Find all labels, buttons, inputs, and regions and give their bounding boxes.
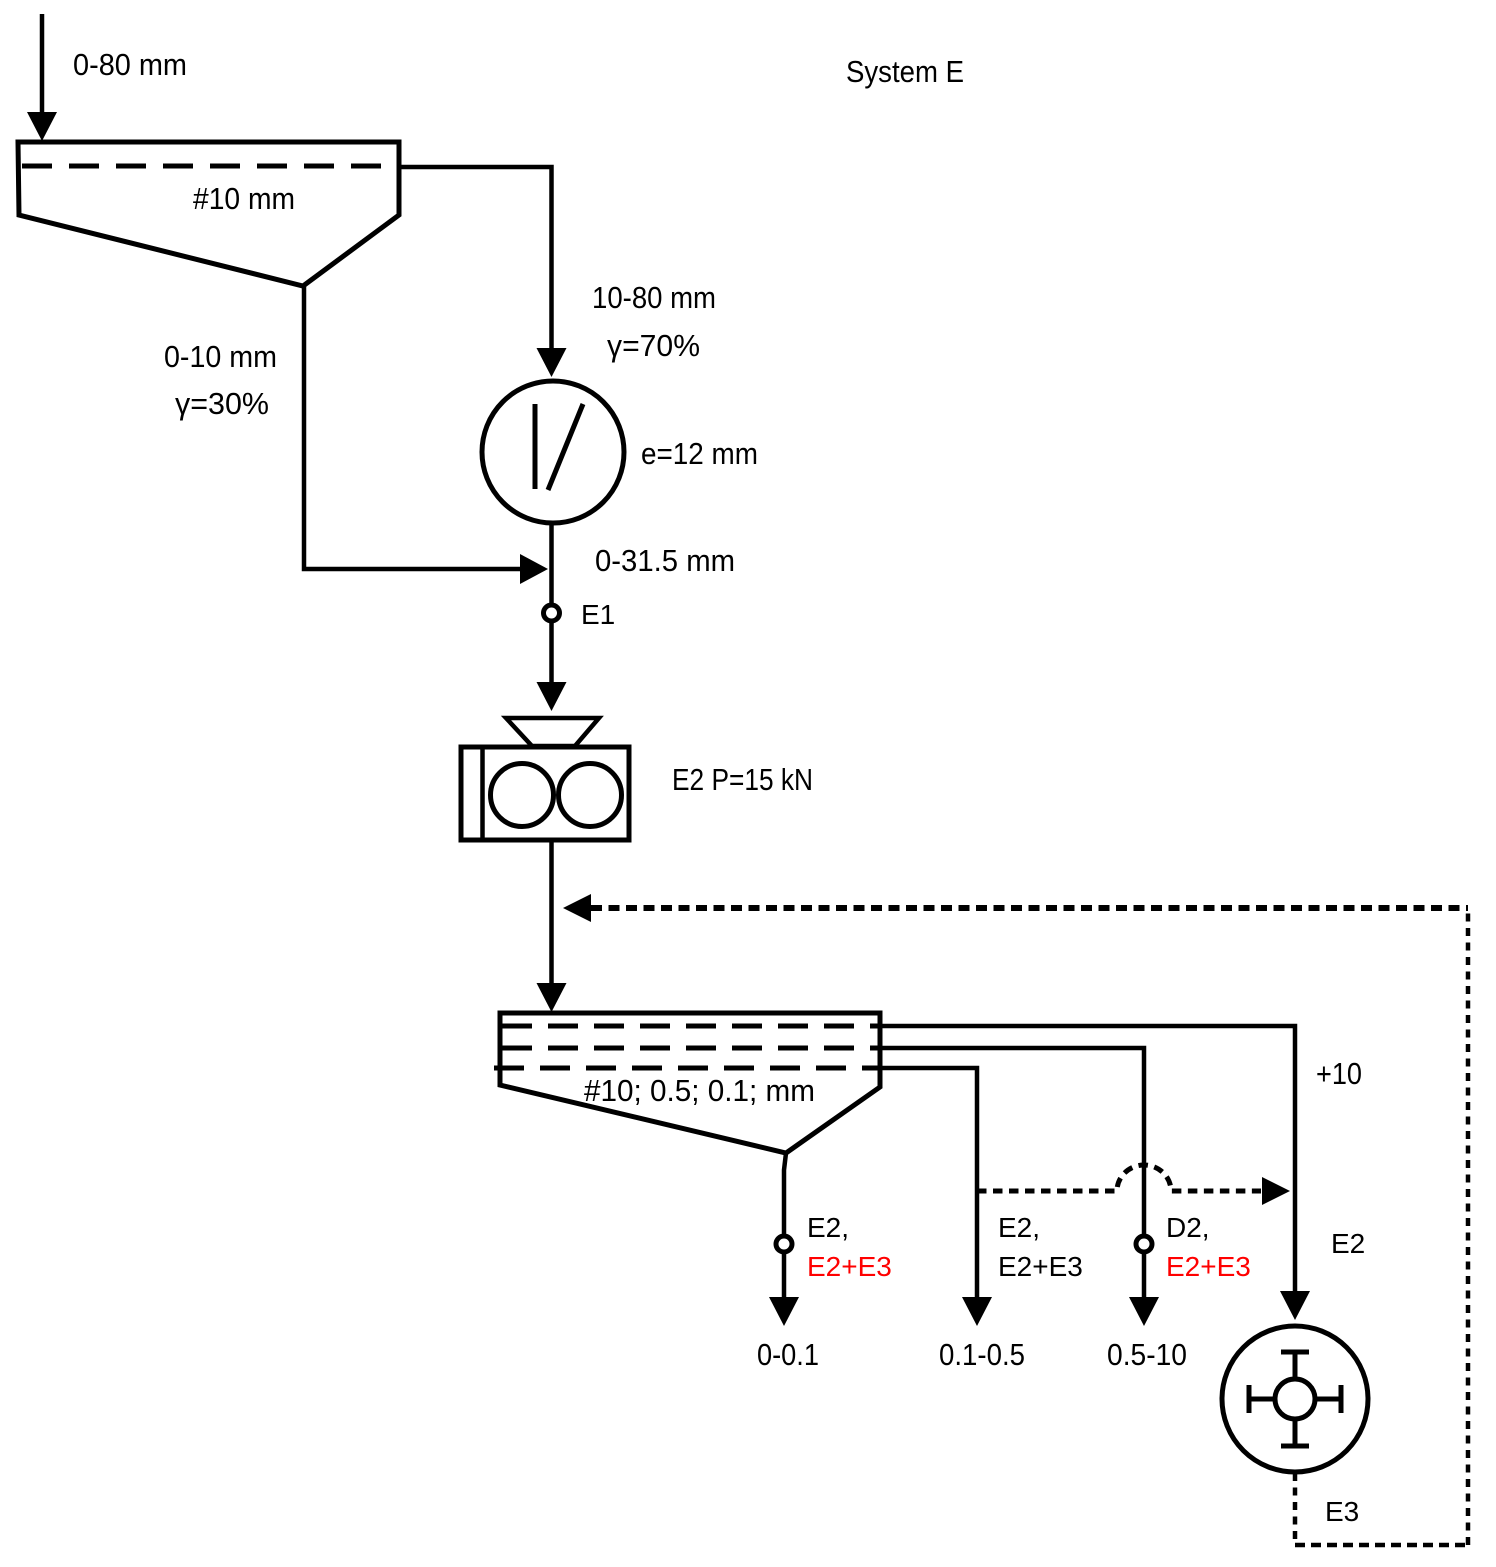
mixer top arm [1293,1352,1298,1377]
dashed wire E3 bottom horizontal [1295,1543,1468,1548]
svg-text:E1: E1 [581,599,615,630]
wire 0.1-0.5 stream [880,1068,977,1297]
node on fines stream [776,1236,792,1252]
svg-text:E2+E3: E2+E3 [1166,1251,1251,1282]
roll crusher E2 funnel [506,718,599,746]
wire +10 overflow to mixer [880,1026,1295,1292]
svg-text:γ=30%: γ=30% [175,386,269,421]
screen S2 deck dashed line 1 [502,1024,878,1029]
crusher internal bars [533,404,538,489]
svg-text:0-10 mm: 0-10 mm [164,339,277,374]
feed arrow 0-80 mm into screen S1 [40,14,45,116]
node D2 [1136,1236,1152,1252]
mixer right arm [1317,1397,1341,1402]
svg-text:0.1-0.5: 0.1-0.5 [939,1337,1025,1372]
svg-text:10-80 mm: 10-80 mm [592,280,716,315]
svg-text:0.5-10: 0.5-10 [1107,1337,1187,1372]
wire roll crusher to screen S2 [549,841,554,984]
svg-text:E2+E3: E2+E3 [998,1251,1083,1282]
mixer bottom arm [1293,1421,1298,1446]
wire 0.5-10 stream [880,1048,1144,1297]
svg-text:#10 mm: #10 mm [193,181,295,216]
roll crusher left roller [491,764,554,827]
roll crusher E2 body [461,747,629,840]
svg-text:0-80 mm: 0-80 mm [73,47,187,82]
mixer left arm [1249,1397,1273,1402]
svg-text:E2+E3: E2+E3 [807,1251,892,1282]
screen S2 deck dashed line 2 [502,1046,878,1051]
svg-text:#10; 0.5; 0.1; mm: #10; 0.5; 0.1; mm [584,1073,815,1108]
svg-text:System E: System E [846,54,964,89]
roll crusher inner partition [480,747,485,840]
mixer inner circle [1275,1379,1315,1419]
screen S1 deck dashed line #10 mm [22,164,397,169]
node E1 [544,605,560,621]
screen S2 outline [500,1013,880,1153]
wire underflow S1 0-10 mm [304,286,521,569]
mixer M outer circle [1222,1326,1368,1472]
svg-text:E3: E3 [1325,1496,1359,1527]
svg-text:E2: E2 [1331,1228,1365,1259]
svg-text:γ=70%: γ=70% [607,328,700,363]
screen S1 outline [18,142,399,286]
dashed wire E3 right vertical [1466,908,1471,1545]
screen S2 deck dashed line 3 [494,1066,878,1071]
svg-text:0-0.1: 0-0.1 [757,1337,819,1372]
svg-text:D2,: D2, [1166,1212,1210,1243]
dashed recycle E3 horizontal wire [591,905,1468,911]
roll crusher right roller [559,764,622,827]
svg-text:+10: +10 [1316,1056,1362,1091]
svg-text:E2,: E2, [807,1212,849,1243]
dashed wire E3 from mixer down [1293,1473,1298,1545]
svg-text:E2,: E2, [998,1212,1040,1243]
svg-text:e=12 mm: e=12 mm [641,436,758,471]
cone crusher circle [482,381,624,523]
dashed recycle E3 arrow into wire [563,894,591,922]
svg-text:E2 P=15 kN: E2 P=15 kN [672,762,813,797]
wire overflow S1 to crusher [399,167,552,349]
wire crusher out 0-31.5 mm [549,523,554,683]
dashed wire D2 branch with hop [977,1165,1261,1191]
svg-text:0-31.5 mm: 0-31.5 mm [595,543,735,578]
wire 0-0.1 fines stream [784,1153,786,1297]
